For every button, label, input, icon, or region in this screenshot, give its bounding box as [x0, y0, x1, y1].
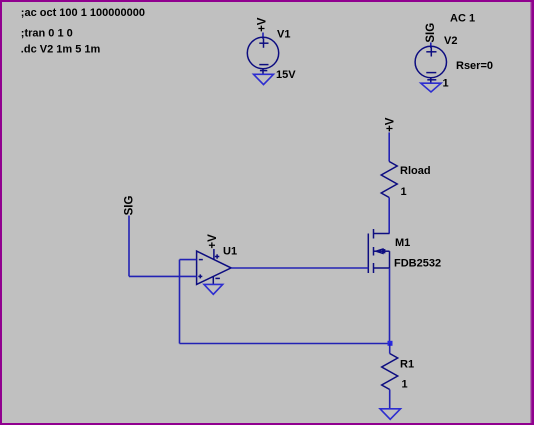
wire feedback vertical	[179, 260, 181, 344]
border frame right edge	[530, 0, 532, 425]
voltage source V2	[415, 46, 446, 83]
svg-text:1: 1	[443, 78, 449, 90]
wire op-amp output	[231, 267, 368, 269]
ground under R1	[380, 409, 401, 420]
wire feedback bottom	[180, 343, 390, 345]
wire junction to R1	[389, 344, 391, 354]
wire +V to Rload	[388, 132, 390, 161]
svg-text:V2: V2	[444, 35, 457, 47]
svg-text:;ac oct 100 1 100000000: ;ac oct 100 1 100000000	[21, 7, 145, 19]
voltage source V1	[247, 37, 278, 74]
svg-text:M1: M1	[395, 237, 410, 249]
op-amp U1	[197, 249, 232, 284]
svg-text:;tran 0 1 0: ;tran 0 1 0	[21, 28, 73, 40]
ground under V2	[421, 83, 441, 92]
resistor R1	[382, 354, 398, 390]
svg-text:.dc V2 1m 5 1m: .dc V2 1m 5 1m	[21, 44, 101, 56]
wire -input left	[180, 259, 197, 261]
svg-text:Rser=0: Rser=0	[456, 60, 493, 72]
svg-text:FDB2532: FDB2532	[394, 258, 441, 270]
wire Rload to drain	[388, 198, 390, 234]
svg-text:+V: +V	[257, 17, 269, 32]
wire source to junction	[389, 268, 391, 344]
svg-text:SIG: SIG	[124, 196, 136, 216]
svg-text:R1: R1	[400, 359, 414, 371]
wire R1 to ground	[389, 390, 391, 409]
wire V2 top	[430, 43, 432, 49]
wire SIG down	[128, 216, 130, 277]
svg-text:Rload: Rload	[400, 165, 431, 177]
svg-text:V1: V1	[277, 28, 290, 40]
svg-text:15V: 15V	[276, 69, 296, 81]
transistor M1	[368, 229, 389, 273]
svg-text:1: 1	[402, 379, 408, 391]
wire V1 top	[262, 33, 264, 40]
ground under U1	[204, 284, 223, 294]
junction node	[388, 341, 393, 346]
svg-text:AC 1: AC 1	[450, 13, 475, 25]
wire SIG to +input	[129, 275, 197, 277]
svg-text:SIG: SIG	[425, 23, 437, 43]
svg-text:1: 1	[401, 186, 407, 198]
svg-text:+V: +V	[384, 117, 396, 132]
svg-text:U1: U1	[223, 245, 237, 257]
ground under V1	[254, 74, 274, 84]
svg-text:+V: +V	[207, 234, 219, 249]
resistor Rload	[381, 162, 397, 198]
